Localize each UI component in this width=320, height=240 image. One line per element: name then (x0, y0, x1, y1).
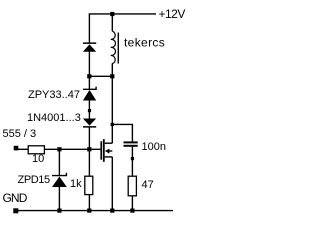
wire: ZPY anode down with junction dot (88, 101, 91, 119)
diode D1 clamp to +12V (83, 42, 96, 51)
node: rail dot MOSFET source (110, 209, 114, 213)
wire: 1k to ground rail (88, 195, 90, 211)
resistor R47 (128, 176, 136, 196)
svg-text:+12V: +12V (159, 7, 186, 21)
wire: +12V top supply rail (89, 13, 156, 15)
svg-text:100n: 100n (142, 141, 166, 153)
svg-text:ZPY33..47: ZPY33..47 (28, 89, 80, 101)
inductor L1 tekercs (111, 31, 119, 63)
node: rail dot resistor 47 (130, 209, 134, 213)
zener diode ZPY33..47 (83, 87, 96, 101)
wire: node A down to zener ZPY (88, 76, 90, 89)
svg-text:GND: GND (3, 191, 28, 205)
terminal: 555/3 input square (14, 146, 19, 151)
terminal: ground square (13, 208, 18, 213)
wire: input terminal to R10 (18, 148, 29, 150)
resistor R10 (28, 146, 44, 154)
svg-text:555 / 3: 555 / 3 (3, 128, 37, 140)
node: rail dot ZPD15 (57, 209, 61, 213)
node: dot on drain column (110, 74, 114, 78)
node: gate wire dot ZPD15 branch (57, 147, 61, 151)
wire: gate node down to ZPD15 (58, 149, 60, 175)
wire: ZPD15 to ground rail (58, 187, 60, 211)
resistor R1k (85, 176, 93, 194)
capacitor C1 100n (124, 141, 138, 146)
node: drain junction dot (111, 123, 114, 126)
node: rail dot 1k (87, 209, 91, 213)
svg-text:10: 10 (32, 153, 44, 165)
svg-text:tekercs: tekercs (124, 36, 165, 50)
wire: resistor 47 to ground rail (131, 196, 133, 211)
node: gate wire dot clamp/1k branch (87, 147, 91, 151)
wire: node A to drain column (89, 75, 112, 77)
wire: drain node to MOSFET drain (111, 124, 113, 143)
zener diode ZPD15 (52, 173, 67, 187)
wire: gate node down to 1k (88, 149, 90, 176)
svg-text:ZPD15: ZPD15 (18, 174, 51, 186)
svg-text:47: 47 (142, 179, 154, 191)
wire: D1 anode to node A (88, 52, 90, 77)
wire: drain node to snubber branch (112, 124, 132, 141)
wire: cap to resistor 47 with junction dot (131, 147, 134, 176)
svg-text:1N4001...3: 1N4001...3 (27, 112, 81, 124)
node: junction dot rail/coil (110, 12, 114, 16)
wire: ground rail (16, 210, 173, 212)
wire: 1N4001 cathode down to gate node (88, 128, 90, 150)
wire: rail down to clamp diode D1 cathode (88, 14, 90, 43)
transistor Q1 N-MOSFET (100, 139, 112, 162)
wire: coil bottom to drain node (111, 64, 113, 125)
svg-text:1k: 1k (70, 178, 82, 190)
wire: MOSFET source to ground rail (111, 157, 113, 211)
node A: dot chain/drain-link (87, 74, 91, 78)
diode 1N4001...3 (83, 119, 96, 128)
wire: R10 to MOSFET gate (44, 148, 100, 150)
wire: coil top stub (111, 14, 113, 31)
